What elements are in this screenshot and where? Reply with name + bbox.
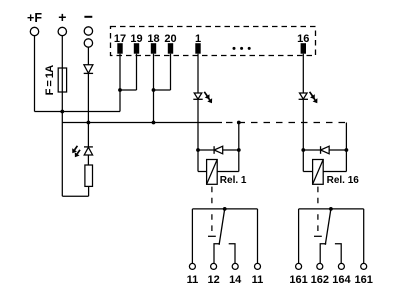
svg-text:19: 19 <box>130 33 142 45</box>
svg-text:161: 161 <box>355 274 373 286</box>
svg-text:20: 20 <box>164 33 176 45</box>
svg-text:1: 1 <box>195 33 201 45</box>
svg-text:+F: +F <box>27 11 42 25</box>
svg-text:Rel. 1: Rel. 1 <box>220 175 247 186</box>
svg-text:18: 18 <box>147 33 159 45</box>
svg-text:Rel. 16: Rel. 16 <box>327 175 360 186</box>
svg-text:+: + <box>58 9 66 25</box>
svg-text:12: 12 <box>207 274 219 286</box>
svg-text:14: 14 <box>229 274 242 286</box>
svg-text:164: 164 <box>332 274 351 286</box>
svg-text:F = 1A: F = 1A <box>44 65 56 96</box>
svg-text:17: 17 <box>114 33 126 45</box>
svg-text:162: 162 <box>311 274 329 286</box>
svg-text:11: 11 <box>187 274 199 286</box>
svg-text:161: 161 <box>289 274 307 286</box>
svg-text:16: 16 <box>297 33 309 45</box>
svg-text:11: 11 <box>252 274 264 286</box>
